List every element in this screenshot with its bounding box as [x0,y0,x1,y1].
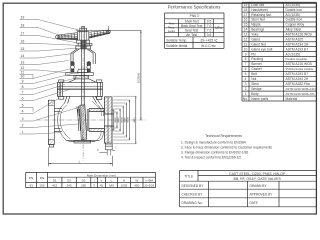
svg-text:4. Test & inspect conform to: 4. Test & inspect conform to EN12266-1/2 [181,155,241,159]
svg-text:1: 1 [22,130,24,134]
svg-text:63: 63 [29,184,33,188]
yoke head [76,46,91,49]
svg-text:8: 8 [22,85,24,89]
bonnet bolt right head [97,80,102,82]
svg-text:DRAWN BY: DRAWN BY [250,184,268,188]
svg-text:CAST STEEL, D200, PN63, HW-OP: CAST STEEL, D200, PN63, HW-OP [229,172,286,176]
left flange hatch bottom [48,139,54,144]
bonnet bolt left head [59,80,64,82]
svg-text:1. Design & manufacture confo: 1. Design & manufacture conform to EN198… [181,140,246,144]
svg-text:ASTM A193 B7: ASTM A193 B7 [286,47,309,51]
svg-text:ASTM A194 2H: ASTM A194 2H [286,42,309,46]
svg-text:Retaining Nut: Retaining Nut [251,13,271,17]
svg-text:Alloy Steel: Alloy Steel [286,28,302,32]
yoke arm left [71,49,77,53]
svg-text:Copper Alloy: Copper Alloy [286,23,305,27]
bonnet [69,79,76,82]
bonnet bolt right shank [97,82,99,96]
svg-text:Φ226: Φ226 [117,117,120,123]
vertical centerline [82,26,84,161]
H dimension [108,26,110,32]
svg-text:n-ΦM: n-ΦM [145,179,153,183]
svg-text:12-Φ26: 12-Φ26 [144,184,154,188]
handwheel hub [77,32,88,41]
svg-text:7.0: 7.0 [207,24,212,28]
svg-text:42: 42 [100,184,104,188]
svg-text:Pin: Pin [251,52,256,56]
gland eye bolt left [71,61,73,63]
main dimension table [26,171,156,173]
nipple [89,44,92,46]
retaining nut [77,40,90,43]
svg-text:Stem Nut: Stem Nut [251,18,265,22]
left flange hatch top [48,100,54,105]
svg-text:Gland eye bolt: Gland eye bolt [251,47,272,51]
parts list table [242,1,316,3]
svg-text:14: 14 [244,28,248,32]
svg-text:7.0: 7.0 [207,28,212,32]
svg-text:Φ200: Φ200 [114,117,117,123]
svg-text:Performance Specifications: Performance Specifications [168,5,222,10]
bonnet bolt right nut [97,96,102,99]
stem tip [82,27,85,29]
svg-text:9: 9 [245,52,247,56]
svg-text:4: 4 [22,110,24,114]
svg-text:16: 16 [21,40,25,44]
yoke arm right [89,49,95,53]
svg-text:Yoke: Yoke [251,33,258,37]
svg-text:17: 17 [244,13,248,17]
svg-text:CHECKED BY: CHECKED BY [182,193,204,197]
svg-text:6: 6 [22,97,24,101]
svg-text:15: 15 [244,23,248,27]
lock nut [80,28,87,32]
svg-text:4: 4 [245,77,247,81]
bearing housing [78,43,88,46]
body bottom boss [74,141,91,143]
svg-text:13: 13 [21,61,25,65]
svg-text:9.5: 9.5 [207,19,212,23]
svg-text:Flexible Graphite: Flexible Graphite [286,57,308,61]
handwheel spokes left [58,35,61,39]
svg-text:MPa: MPa [215,26,222,30]
svg-text:2: 2 [245,87,247,91]
svg-text:12: 12 [244,37,248,41]
seat ring right [86,109,88,131]
svg-text:ASTM A216 WCB: ASTM A216 WCB [286,62,313,66]
stem [81,40,83,104]
svg-text:Φ285: Φ285 [123,117,126,123]
seat ring left [78,109,79,131]
svg-text:Main Dimension (mm): Main Dimension (mm) [87,173,116,177]
svg-text:17: 17 [21,32,25,36]
svg-text:540: 540 [109,184,114,188]
packing [75,76,87,79]
svg-text:DRAWING No.: DRAWING No. [182,201,203,205]
left run pipe [54,108,62,110]
svg-text:ssure: ssure [168,29,176,33]
svg-text:DATE: DATE [250,201,258,205]
svg-text:A3 (1035): A3 (1035) [286,3,300,7]
yoke leg left [70,53,72,64]
svg-text:DN: DN [40,176,44,180]
svg-text:ASTM A182 F6a: ASTM A182 F6a [286,82,310,86]
svg-text:D1: D1 [53,179,57,183]
svg-text:Packing: Packing [251,57,263,61]
svg-text:ASTM A194 2H: ASTM A194 2H [286,77,309,81]
stuffing box [74,75,89,79]
svg-text:D2: D2 [67,179,71,183]
svg-text:Material: Material [286,97,298,101]
svg-text:10: 10 [244,47,248,51]
svg-text:DESIGNED BY: DESIGNED BY [182,184,205,188]
svg-text:Nipple: Nipple [251,23,261,27]
wedge hatch [81,105,87,140]
body bottom [66,140,99,142]
svg-text:5: 5 [245,72,247,76]
handwheel left rim [57,33,78,36]
svg-text:450: 450 [134,184,139,188]
svg-text:3: 3 [22,117,24,121]
diameter dimensions [116,112,118,128]
svg-text:H: H [123,179,125,183]
body bowl wall [58,103,71,141]
svg-text:345: 345 [67,184,72,188]
horizontal centerline [36,119,147,121]
svg-text:3. Flange dimension conforms: 3. Flange dimension conforms to EN1092-1… [181,150,249,154]
gland [66,73,94,76]
gasket [58,88,103,90]
handwheel spokes right [90,32,93,38]
right run pipe [89,108,104,110]
wedge guide [78,106,79,116]
svg-text:SS304+Flexible Graphite: SS304+Flexible Graphite [286,68,314,71]
svg-text:Technical Requirements: Technical Requirements [205,134,242,138]
svg-text:9: 9 [22,80,24,84]
svg-text:Suitable Temp.: Suitable Temp. [166,38,187,42]
svg-text:Φ345: Φ345 [127,117,130,123]
svg-text:Handwheel: Handwheel [251,8,268,12]
handwheel right rim [89,30,109,32]
L dimension [47,147,49,166]
svg-text:A3 (1035): A3 (1035) [286,13,300,17]
body neck left [65,96,67,103]
body taper to flange [92,101,100,109]
svg-text:10: 10 [21,75,25,79]
svg-text:Bearings: Bearings [251,28,264,32]
svg-text:D3: D3 [82,179,86,183]
svg-text:Φ240: Φ240 [120,117,123,123]
svg-text:Φ415: Φ415 [133,117,136,123]
svg-text:Wedge: Wedge [251,87,262,91]
svg-text:Ductile Iron: Ductile Iron [286,18,303,22]
svg-text:TITLE: TITLE [184,174,194,178]
wedge [80,105,87,140]
svg-text:11: 11 [244,42,248,46]
svg-text:13: 13 [244,33,248,37]
svg-text:7: 7 [245,62,247,66]
title block [180,170,317,172]
svg-text:-29~+425 ℃: -29~+425 ℃ [199,38,218,42]
svg-text:BB, RF, OS&Y, GATE VALVES: BB, RF, OS&Y, GATE VALVES [233,177,281,181]
svg-text:16: 16 [244,18,248,22]
svg-text:Air Test: Air Test [186,33,197,37]
svg-text:Bonnet: Bonnet [251,62,262,66]
svg-text:PN: PN [29,176,33,180]
bolt hole detail [106,143,113,150]
stem nut dark section [81,40,87,49]
svg-text:Ductile Iron: Ductile Iron [286,8,303,12]
yoke leg right [92,53,94,64]
svg-text:ASTM A216 WCB+13Cr: ASTM A216 WCB+13Cr [286,87,316,91]
right end flange section [103,97,105,143]
left end flange [48,100,54,144]
svg-text:2. Face to Face dimension con: 2. Face to Face dimension conforms to Cu… [181,145,272,149]
svg-text:Gland: Gland [251,37,260,41]
svg-text:8: 8 [245,57,247,61]
svg-text:1: 1 [245,92,247,96]
svg-text:Shell Test: Shell Test [185,19,199,23]
svg-text:Back Seal Test: Back Seal Test [181,24,203,28]
svg-text:No.: No. [243,97,248,101]
svg-text:W.O.G etc: W.O.G etc [201,44,216,48]
right flange raised face [112,110,114,130]
svg-text:1035(H): 1035(H) [137,73,141,83]
svg-text:PN6.3: PN6.3 [190,14,199,18]
svg-text:APPROVED BY: APPROVED BY [250,193,274,197]
svg-text:6: 6 [245,67,247,71]
svg-text:Bolt: Bolt [251,72,257,76]
svg-text:285: 285 [81,184,86,188]
svg-text:Suitable Media: Suitable Media [166,44,187,48]
svg-text:19: 19 [21,16,25,20]
right run wall [89,109,104,112]
svg-text:ASTM A216 WCB+STL: ASTM A216 WCB+STL [286,92,316,96]
svg-text:15: 15 [21,47,25,51]
bonnet flange end hatch [58,83,61,97]
bonnet bolt left nut [59,96,64,99]
svg-text:200: 200 [40,184,45,188]
svg-text:ASTM A216 WCB: ASTM A216 WCB [286,33,313,37]
svg-text:Nut: Nut [251,77,256,81]
svg-text:A3 (1035): A3 (1035) [286,52,300,56]
gland eye bolt right [88,61,90,63]
svg-text:2: 2 [22,124,24,128]
svg-text:Stem: Stem [251,82,259,86]
svg-text:5: 5 [22,104,24,108]
svg-text:ASTM A193 B7: ASTM A193 B7 [286,72,309,76]
svg-text:415: 415 [52,184,57,188]
svg-text:Gland Nut: Gland Nut [251,42,266,46]
svg-text:1035: 1035 [121,184,128,188]
body flange [58,89,103,96]
svg-text:18: 18 [244,8,248,12]
svg-text:14: 14 [21,54,25,58]
svg-text:3: 3 [245,82,247,86]
bonnet flange [58,82,103,89]
svg-text:Gasket: Gasket [251,67,262,71]
body bowl right wall [100,103,104,116]
svg-text:Seal Test: Seal Test [185,28,198,32]
svg-text:Body: Body [251,92,259,96]
svg-text:Lock Nut: Lock Nut [251,3,264,7]
left flange bolt stub [49,144,53,147]
svg-text:7: 7 [22,91,24,95]
svg-text:W: W [135,179,138,183]
svg-text:19: 19 [244,3,248,7]
svg-text:12: 12 [21,66,25,70]
svg-text:0.6: 0.6 [207,33,212,37]
svg-text:18: 18 [21,24,25,28]
svg-text:Name parts: Name parts [251,97,268,101]
svg-text:ASTM A105: ASTM A105 [286,37,304,41]
body neck right [95,96,99,103]
